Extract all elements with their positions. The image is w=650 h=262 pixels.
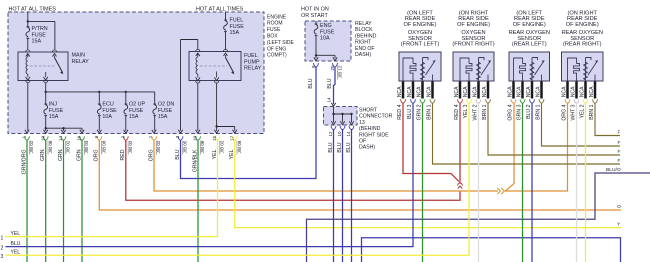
- svg-text:NCA: NCA: [482, 86, 488, 97]
- svg-text:ORG 4: ORG 4: [562, 104, 568, 120]
- svg-text:J/B 03: J/B 03: [84, 140, 89, 153]
- engine room fuse box: [8, 12, 264, 134]
- svg-text:BLU: BLU: [337, 142, 343, 152]
- svg-text:(FRONT RIGHT): (FRONT RIGHT): [452, 42, 494, 48]
- wire GRN 14 (inj b): [63, 140, 65, 262]
- wire S3 BRN 1: [542, 103, 621, 146]
- svg-text:ENGINE: ENGINE: [267, 14, 287, 20]
- fuel pump relay K2: [189, 52, 241, 81]
- svg-text:FUSE: FUSE: [49, 108, 64, 114]
- svg-text:15A: 15A: [158, 114, 168, 120]
- wire ORG 9 to right edge label O: [99, 140, 621, 210]
- wire BLU 3 to ENG fuse pin 8: [181, 67, 317, 179]
- wire ORG 7 to rear O2 heaters: [154, 140, 498, 191]
- wire S3 GRN 3: [522, 103, 524, 262]
- svg-text:ECU: ECU: [102, 102, 113, 108]
- svg-text:10: 10: [193, 135, 198, 141]
- pin 1 BRN of U3 rear oxygen sensor rear left: [540, 82, 543, 99]
- oxygen sensor (front left) box U1: [399, 52, 441, 81]
- svg-text:FUSE: FUSE: [320, 29, 335, 35]
- svg-text:INJ: INJ: [49, 102, 57, 108]
- fuse FUEL 15A: [225, 19, 227, 22]
- svg-text:YEL: YEL: [11, 250, 21, 256]
- svg-text:RED 4: RED 4: [397, 104, 403, 119]
- svg-text:2: 2: [1, 246, 4, 252]
- svg-text:NCA: NCA: [517, 86, 523, 97]
- pin 1 BRN of U1 oxygen sensor front left: [431, 82, 434, 99]
- svg-text:OR START: OR START: [301, 13, 328, 19]
- svg-text:FUSE: FUSE: [230, 24, 245, 30]
- relay switch arm: [54, 56, 56, 58]
- svg-text:HOT AT ALL TIMES: HOT AT ALL TIMES: [196, 7, 244, 13]
- wire main relay switch out / fuse bus: [45, 83, 47, 102]
- svg-text:RELAY: RELAY: [72, 59, 90, 65]
- wire BLU/O off-page run: [307, 173, 650, 262]
- svg-text:NCA: NCA: [473, 86, 479, 97]
- node HOT AT ALL TIMES (fuel feed): [225, 12, 227, 20]
- pin 3 WHT of U4 rear oxygen sensor rear right: [575, 82, 578, 99]
- wire GRN 10 (inj a): [45, 140, 47, 262]
- svg-text:J/B 02: J/B 02: [220, 140, 225, 153]
- ENG fuse output split: [315, 40, 317, 58]
- svg-text:YEL 2: YEL 2: [580, 104, 586, 118]
- wire S1 BRN 1: [433, 103, 621, 164]
- svg-text:FUSE: FUSE: [129, 108, 144, 114]
- svg-text:10: 10: [77, 135, 82, 141]
- svg-text:J/B 02: J/B 02: [29, 140, 34, 153]
- svg-text:1: 1: [1, 236, 4, 242]
- svg-text:BRN 1: BRN 1: [536, 104, 542, 119]
- svg-text:BRN 1: BRN 1: [482, 104, 488, 119]
- svg-text:17: 17: [229, 135, 234, 141]
- svg-text:MAIN: MAIN: [72, 53, 86, 59]
- pin 2 BLU of U3 rear oxygen sensor rear left: [531, 82, 534, 99]
- svg-text:GRN 3: GRN 3: [517, 104, 523, 120]
- svg-text:15: 15: [212, 135, 217, 141]
- fuse O2 DN 15A: [154, 92, 156, 102]
- short connector internal bus: [333, 107, 335, 114]
- svg-text:14: 14: [327, 97, 332, 103]
- wire BLU 14 from short connector: [351, 129, 353, 262]
- pin 2 RED: [123, 136, 128, 140]
- svg-text:WHT 3: WHT 3: [571, 104, 577, 120]
- svg-text:FUEL: FUEL: [244, 53, 258, 59]
- svg-text:YEL 3: YEL 3: [463, 104, 469, 118]
- svg-text:F: F: [618, 158, 621, 163]
- svg-text:COMPT): COMPT): [267, 53, 287, 59]
- svg-text:OF: OF: [359, 139, 366, 145]
- svg-text:OF ENGINE): OF ENGINE): [566, 22, 599, 28]
- wire GRN/BLK 10: [197, 140, 199, 262]
- wire S3 BLU 2: [531, 103, 533, 262]
- svg-text:J/B 02: J/B 02: [128, 140, 133, 153]
- svg-text:(REAR RIGHT): (REAR RIGHT): [563, 42, 602, 48]
- svg-text:BLU: BLU: [327, 78, 333, 88]
- rear oxygen sensor (rear left) box U3: [509, 52, 550, 81]
- svg-text:NCA: NCA: [508, 86, 514, 97]
- wire S4 ORG 4 run: [505, 103, 568, 191]
- svg-text:PUMP: PUMP: [244, 59, 260, 65]
- svg-text:GRN 2: GRN 2: [417, 104, 423, 120]
- pin 1 BRN of U2 oxygen sensor front right: [487, 82, 490, 99]
- svg-text:20: 20: [330, 65, 335, 71]
- svg-text:FUSE: FUSE: [267, 27, 281, 33]
- U1 oxygen sensor front left internals: [403, 58, 413, 81]
- fuse O2 UP 15A: [125, 92, 127, 102]
- svg-text:HOT IN ON: HOT IN ON: [301, 7, 329, 13]
- svg-text:BOX: BOX: [267, 34, 278, 40]
- svg-text:DASH): DASH): [359, 145, 375, 151]
- svg-text:12: 12: [328, 131, 333, 137]
- svg-text:14: 14: [346, 131, 351, 137]
- wire S1 GRN 2: [422, 103, 424, 262]
- wire main relay coil out to pin GRN/ORG: [27, 83, 29, 131]
- pin 2 YEL of U4 rear oxygen sensor rear right: [584, 82, 587, 99]
- svg-text:ENG: ENG: [320, 23, 332, 29]
- svg-text:BLU 2: BLU 2: [526, 104, 532, 119]
- svg-text:BLU 3: BLU 3: [407, 104, 413, 119]
- svg-text:OF ENG: OF ENG: [267, 46, 286, 52]
- pin 4 RED of U2 oxygen sensor front right: [459, 82, 462, 99]
- wire S2 WHT 2: [478, 103, 480, 262]
- wire fuel relay outputs: [197, 84, 199, 131]
- pin 17 YEL: [232, 136, 237, 140]
- svg-text:J/B 08: J/B 08: [102, 140, 107, 153]
- svg-text:O2 UP: O2 UP: [129, 102, 146, 108]
- svg-text:DASH): DASH): [355, 52, 371, 58]
- svg-text:(BEHIND: (BEHIND: [359, 126, 381, 132]
- fuse ECU 10A: [98, 92, 100, 102]
- wire fuel relay coil feed from ENG fuse via BLU 3: [197, 40, 199, 50]
- svg-text:NCA: NCA: [562, 86, 568, 97]
- pin 10 GRN: [43, 136, 48, 140]
- svg-text:ROOM: ROOM: [267, 21, 283, 27]
- pin 15 YEL: [215, 136, 220, 140]
- U2 oxygen sensor front right internals: [460, 58, 469, 81]
- svg-text:15A: 15A: [129, 114, 139, 120]
- pin 10 GRN: [80, 136, 85, 140]
- pin 2 WHT of U2 oxygen sensor front right: [477, 82, 480, 99]
- svg-text:(LEFT SIDE: (LEFT SIDE: [267, 40, 295, 46]
- wire BLU 10 from short connector: [342, 129, 344, 262]
- pin 3 YEL of U2 oxygen sensor front right: [468, 82, 471, 99]
- svg-text:14: 14: [58, 135, 63, 141]
- svg-text:BLU/O: BLU/O: [606, 167, 621, 173]
- wire YEL 17 to right edge label Y: [235, 140, 622, 227]
- wire S2 YEL 3 to bottom yellow bus: [6, 103, 470, 255]
- pin 9 ORG: [97, 136, 102, 140]
- svg-text:13: 13: [359, 120, 365, 126]
- svg-text:NCA: NCA: [427, 86, 433, 97]
- wire branch to relay switch: [28, 20, 55, 22]
- pin 4 ORG of U4 rear oxygen sensor rear right: [566, 82, 569, 99]
- svg-text:NCA: NCA: [571, 86, 577, 97]
- fuse INJ 15A: [45, 102, 47, 104]
- svg-text:15A: 15A: [230, 30, 240, 36]
- wire blue branch across bottom: [362, 238, 621, 262]
- svg-text:RIGHT: RIGHT: [355, 40, 372, 46]
- svg-text:BRN 1: BRN 1: [589, 104, 595, 119]
- wire BLU 20 from relay block to short connector pin 14: [333, 63, 338, 67]
- short connector 13 box: [324, 107, 358, 126]
- svg-text:OF ENGINE): OF ENGINE): [457, 22, 490, 28]
- main relay K1: [18, 52, 68, 81]
- U3 rear oxygen sensor rear left internals: [514, 58, 523, 81]
- wire S4 BRN 1: [595, 103, 620, 135]
- svg-text:BRN 1: BRN 1: [427, 104, 433, 119]
- svg-text:J/B 08: J/B 08: [48, 140, 53, 153]
- svg-text:10: 10: [337, 131, 342, 137]
- svg-text:10A: 10A: [320, 36, 330, 42]
- svg-text:J/B 05: J/B 05: [183, 140, 188, 153]
- fuse P/TRN 15A: [27, 24, 29, 27]
- pin 2 GRN of U1 oxygen sensor front left: [421, 82, 424, 99]
- relay dashed link: [30, 65, 56, 67]
- svg-text:OF ENGINE): OF ENGINE): [404, 22, 437, 28]
- node HOT AT ALL TIMES (left feed): [27, 12, 29, 24]
- svg-text:NCA: NCA: [407, 86, 413, 97]
- pin 1 BRN of U4 rear oxygen sensor rear right: [594, 82, 597, 99]
- svg-text:BLU: BLU: [328, 142, 334, 152]
- svg-text:FUSE: FUSE: [102, 108, 117, 114]
- svg-text:NCA: NCA: [589, 86, 595, 97]
- svg-text:NCA: NCA: [417, 86, 423, 97]
- svg-text:RELAY: RELAY: [244, 66, 262, 72]
- pin 3 GRN of U3 rear oxygen sensor rear left: [521, 82, 524, 99]
- svg-text:3: 3: [1, 254, 4, 260]
- svg-text:15A: 15A: [32, 39, 42, 45]
- pin 4 ORG of U3 rear oxygen sensor rear left: [512, 82, 515, 99]
- wire YEL 15 to left edge 1: [6, 140, 218, 236]
- svg-text:P/TRN: P/TRN: [32, 26, 48, 32]
- svg-text:10A: 10A: [102, 114, 112, 120]
- wire S1 BLU 3 to left edge 2 with branch: [6, 103, 414, 246]
- wire S4 WHT 3: [576, 103, 578, 262]
- svg-text:F: F: [618, 149, 621, 154]
- svg-text:NCA: NCA: [536, 86, 542, 97]
- svg-text:NCA: NCA: [580, 86, 586, 97]
- svg-text:(REAR LEFT): (REAR LEFT): [512, 42, 547, 48]
- svg-text:END OF: END OF: [355, 46, 375, 52]
- wire S2 RED 4 drop: [459, 103, 461, 183]
- svg-text:BLU: BLU: [11, 241, 21, 247]
- svg-text:J/B 12: J/B 12: [337, 65, 342, 78]
- svg-text:NCA: NCA: [463, 86, 469, 97]
- svg-text:(BEHIND: (BEHIND: [355, 33, 377, 39]
- svg-text:NCA: NCA: [526, 86, 532, 97]
- svg-text:J/B 08: J/B 08: [200, 140, 205, 153]
- svg-text:OF ENGINE): OF ENGINE): [513, 22, 546, 28]
- svg-text:10: 10: [40, 135, 45, 141]
- svg-text:BLOCK: BLOCK: [355, 27, 373, 33]
- svg-text:(FRONT LEFT): (FRONT LEFT): [401, 42, 440, 48]
- rear oxygen sensor (rear right) box U4: [562, 52, 604, 81]
- connector C2 orange inline: [497, 188, 504, 194]
- wire BLU 8 from relay block (to BLU 3 of fuse box): [314, 63, 319, 67]
- svg-text:J/B 02: J/B 02: [66, 140, 71, 153]
- svg-text:BLU: BLU: [346, 142, 352, 152]
- wire S3 ORG 4 diagonal: [506, 103, 515, 191]
- pin 3 BLU: [178, 136, 183, 140]
- svg-text:NCA: NCA: [454, 86, 460, 97]
- svg-text:O2 DN: O2 DN: [158, 102, 175, 108]
- svg-text:J/B 08: J/B 08: [237, 140, 242, 153]
- wire BLU 12 from short connector: [333, 129, 335, 262]
- wire S1 RED 4 branch: [403, 103, 459, 181]
- svg-text:FUSE: FUSE: [158, 108, 173, 114]
- svg-text:WHT 2: WHT 2: [473, 104, 479, 120]
- svg-text:HOT AT ALL TIMES: HOT AT ALL TIMES: [9, 7, 57, 13]
- pin 1 GRN/ORG: [25, 136, 30, 140]
- connector C1 red inline: [458, 183, 463, 185]
- wire S2 BRN 1: [488, 103, 620, 155]
- relay block (behind right end of dash): [305, 21, 351, 61]
- svg-text:ORG 4: ORG 4: [508, 104, 514, 120]
- pin 3 BLU of U1 oxygen sensor front left: [412, 82, 415, 99]
- node HOT IN ON OR START: [315, 21, 317, 24]
- wire GRN 10 (inj c): [81, 140, 83, 262]
- svg-text:15A: 15A: [49, 114, 59, 120]
- svg-text:RED 4: RED 4: [454, 104, 460, 119]
- U4 rear oxygen sensor rear right internals: [568, 58, 577, 81]
- svg-text:SHORT: SHORT: [359, 108, 378, 114]
- svg-text:RELAY: RELAY: [355, 21, 372, 27]
- pin 7 ORG: [152, 136, 157, 140]
- oxygen sensor (front right) box U2: [453, 52, 494, 81]
- pin 14 GRN: [61, 136, 66, 140]
- INJ output split to three pins: [45, 118, 47, 131]
- svg-text:CONNECTOR: CONNECTOR: [359, 114, 393, 120]
- svg-text:BLU: BLU: [308, 78, 314, 88]
- fuse ENG 10A: [315, 23, 317, 25]
- svg-text:NCA: NCA: [397, 86, 403, 97]
- svg-text:F: F: [618, 140, 621, 145]
- svg-text:RIGHT SIDE: RIGHT SIDE: [359, 132, 389, 138]
- svg-text:YEL: YEL: [11, 231, 21, 237]
- wire GRN/ORG 1: [26, 140, 28, 262]
- svg-text:F: F: [618, 130, 621, 135]
- pin 4 RED of U1 oxygen sensor front left: [402, 82, 405, 99]
- svg-text:J/B 02: J/B 02: [156, 140, 161, 153]
- wire S4 YEL 2: [585, 103, 587, 262]
- svg-text:FUSE: FUSE: [32, 32, 47, 38]
- svg-text:O: O: [617, 204, 621, 210]
- pin 10 GRN/BLK: [196, 136, 201, 140]
- svg-text:FUEL: FUEL: [230, 18, 244, 24]
- wire RED 2 to O2 sensor heaters: [126, 140, 460, 200]
